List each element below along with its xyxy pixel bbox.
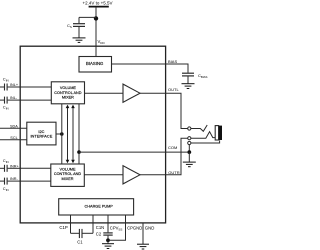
op-amp L [123, 84, 140, 102]
svg-text:C1N: C1N [96, 225, 104, 230]
wire to ground [107, 240, 109, 243]
node COM junction [77, 150, 81, 154]
pin C1N [92, 215, 94, 233]
svg-text:VOLUME: VOLUME [59, 168, 76, 172]
svg-text:CONTROL AND: CONTROL AND [54, 172, 82, 176]
capacitor CS [67, 17, 85, 37]
node I2C bus junction [60, 132, 64, 136]
svg-text:C1P: C1P [59, 225, 67, 230]
wire VDD vertical [95, 7, 97, 57]
IC main box [20, 46, 165, 223]
capacitor C2 [96, 231, 113, 240]
node supply junction [94, 16, 98, 20]
svg-text:CPVSS: CPVSS [110, 226, 123, 232]
volume control and mixer L [51, 82, 84, 104]
op-amp R [123, 166, 140, 184]
ground (GND pin) [137, 244, 149, 249]
wire to ground [188, 152, 190, 162]
svg-text:OUTL: OUTL [168, 87, 179, 92]
svg-text:CIN: CIN [3, 77, 9, 83]
wire I2C out [56, 133, 62, 135]
wire to amp L [85, 92, 124, 94]
svg-text:CIN: CIN [3, 105, 9, 111]
capacitor CBIAS [182, 73, 208, 84]
wire OUTR [140, 138, 188, 175]
svg-text:OUTR: OUTR [168, 170, 179, 175]
ground (CS) [73, 38, 86, 43]
pin GND [142, 223, 144, 244]
wire control bus 1 [61, 104, 63, 164]
op-amp biasing block [79, 57, 112, 73]
svg-text:BIASING: BIASING [86, 61, 104, 66]
capacitor C1 [71, 229, 94, 245]
svg-text:COM: COM [168, 145, 177, 150]
svg-text:GND: GND [145, 225, 155, 230]
svg-text:SCL: SCL [10, 136, 17, 140]
ground (C2) [102, 244, 114, 249]
jack contact ring (OUTR) [188, 137, 191, 140]
jack contact sleeve [188, 141, 191, 144]
I2C interface block [27, 122, 56, 145]
svg-text:CPGND: CPGND [127, 226, 142, 231]
wire COM [79, 151, 187, 153]
svg-text:MIXER: MIXER [62, 95, 74, 99]
supply rail bar [89, 6, 109, 8]
svg-text:INTERFACE: INTERFACE [30, 134, 52, 139]
jack contact tip (OUTL) [188, 127, 191, 130]
wire sleeve to COM [188, 145, 190, 153]
wire control bus 4 [78, 104, 80, 164]
svg-text:CIN: CIN [3, 158, 9, 164]
svg-text:MIXER: MIXER [61, 177, 73, 181]
svg-text:CONTROL AND: CONTROL AND [54, 91, 82, 95]
wire SDA [0, 127, 27, 129]
pin C1P [70, 215, 72, 233]
svg-text:C2: C2 [96, 231, 102, 236]
pin CPGND [110, 215, 126, 240]
capacitor CIN (INR+) [0, 158, 21, 172]
node sleeve junction [187, 150, 191, 154]
svg-text:VOLUME: VOLUME [60, 86, 77, 90]
wire INR+ inside [20, 167, 51, 169]
wire CS branch [79, 16, 96, 18]
wire INR- inside [20, 180, 51, 182]
svg-text:INL-: INL- [10, 96, 18, 100]
svg-text:CIN: CIN [3, 186, 9, 192]
wire control bus 2 (arrows) [66, 105, 70, 164]
volume control and mixer R [51, 164, 85, 186]
headphone plug [215, 126, 222, 140]
svg-text:INR-: INR- [10, 177, 19, 181]
node C2/CPGND junction [106, 238, 110, 242]
wire to amp R [84, 174, 123, 176]
wire OUTL [140, 93, 188, 128]
ground (CBIAS) [182, 84, 195, 89]
svg-text:CS: CS [67, 23, 72, 29]
ground (jack) [183, 162, 196, 167]
svg-text:CBIAS: CBIAS [198, 73, 208, 79]
wire BIAS out [112, 64, 189, 73]
capacitor CIN (INR-) [0, 178, 21, 192]
svg-text:C1: C1 [77, 240, 83, 245]
svg-text:SDA: SDA [10, 124, 18, 128]
svg-text:INL+: INL+ [10, 83, 19, 87]
capacitor CIN (INL+) [0, 77, 21, 91]
wire control bus 3 (arrows) [71, 105, 75, 164]
capacitor CIN (INL-) [0, 97, 21, 111]
pin CPVSS [107, 215, 109, 232]
svg-text:CHARGE PUMP: CHARGE PUMP [85, 205, 114, 209]
svg-text:VDD: VDD [98, 39, 106, 45]
svg-text:BIAS: BIAS [168, 59, 177, 64]
svg-text:INR+: INR+ [10, 164, 20, 168]
wire SCL [0, 139, 27, 141]
svg-text:+2.4V to +5.5V: +2.4V to +5.5V [82, 1, 112, 6]
wire INL+ inside [20, 86, 51, 88]
charge pump block [59, 199, 134, 215]
wire INL- inside [20, 99, 51, 101]
